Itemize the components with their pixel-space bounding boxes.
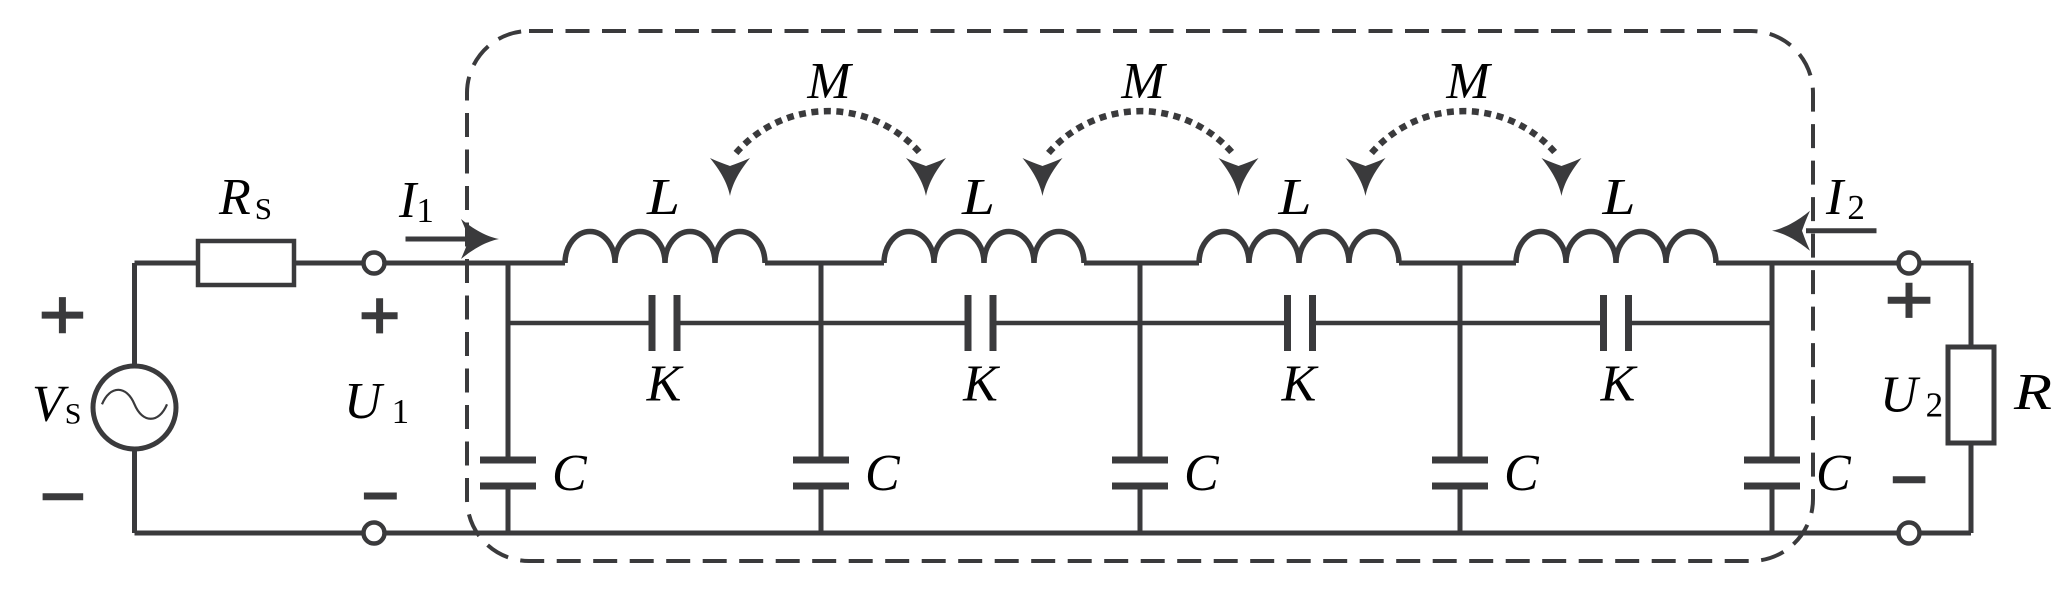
svg-text:C: C xyxy=(1184,445,1220,502)
svg-text:I1: I1 xyxy=(398,172,434,230)
svg-text:I2: I2 xyxy=(1825,169,1865,227)
svg-text:R: R xyxy=(2013,364,2052,421)
svg-text:VS: VS xyxy=(32,376,81,433)
svg-text:K: K xyxy=(1281,356,1319,413)
svg-text:C: C xyxy=(552,445,588,502)
svg-text:C: C xyxy=(1504,445,1540,502)
svg-text:L: L xyxy=(646,169,680,226)
svg-text:L: L xyxy=(1277,169,1311,226)
svg-text:U2: U2 xyxy=(1880,367,1943,425)
svg-text:L: L xyxy=(1601,169,1635,226)
svg-text:L: L xyxy=(961,169,995,226)
svg-text:C: C xyxy=(865,445,901,502)
svg-text:M: M xyxy=(1120,53,1167,110)
svg-text:K: K xyxy=(1600,356,1638,413)
svg-text:U1: U1 xyxy=(344,373,409,431)
svg-text:K: K xyxy=(646,356,684,413)
svg-text:C: C xyxy=(1816,445,1852,502)
svg-text:M: M xyxy=(1445,53,1492,110)
svg-text:RS: RS xyxy=(218,169,272,226)
svg-text:M: M xyxy=(806,53,853,110)
svg-text:K: K xyxy=(962,356,1000,413)
